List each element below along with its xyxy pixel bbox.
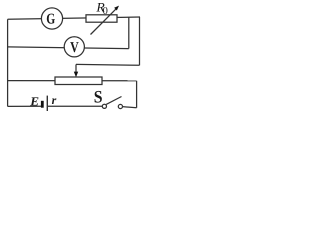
svg-text:S: S [94, 86, 103, 106]
svg-text:G: G [46, 12, 55, 28]
svg-text:E: E [29, 94, 39, 108]
svg-text:V: V [70, 40, 79, 56]
svg-text:r: r [52, 93, 57, 107]
svg-text:0: 0 [103, 6, 108, 17]
